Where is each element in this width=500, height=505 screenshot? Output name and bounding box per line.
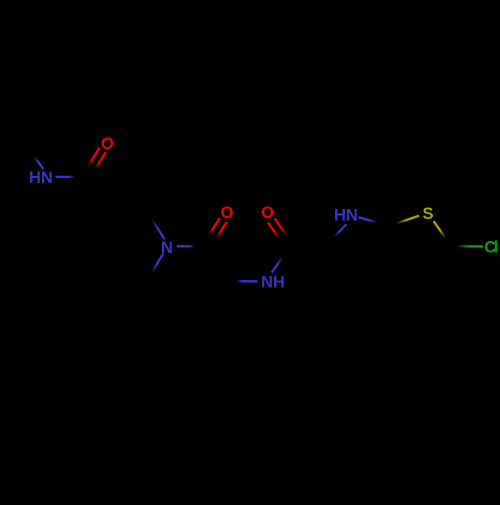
bond N1-C(=O) amide (blue half) — [56, 176, 76, 178]
bond N2-CH2 ring down-left (blue half) — [152, 254, 164, 274]
double bond C=O2 line a (red half) — [209, 218, 220, 235]
double bond C=O3 line a (red half) — [275, 218, 287, 235]
bond S-C6a thiophene (yellow half) — [397, 216, 420, 224]
bond N2-C(=O) acyl (blue half) — [177, 245, 195, 248]
bond S-C2 thiophene (yellow half) — [434, 221, 446, 238]
svg-text:S: S — [422, 205, 433, 223]
svg-text:O: O — [221, 204, 234, 222]
svg-text:N: N — [161, 239, 173, 257]
double bond C=O2 line b (red half) — [217, 222, 227, 239]
double bond C=O1 line a (red half) — [88, 148, 100, 167]
svg-text:NH: NH — [261, 274, 285, 292]
bond N2-CH2 ring up-left (blue half) — [152, 220, 165, 240]
svg-text:O: O — [261, 204, 274, 222]
double bond C=O1 line b (red half) — [95, 152, 106, 169]
svg-text:HN: HN — [29, 169, 53, 187]
double bond C=O3 line b (red half) — [268, 223, 279, 239]
svg-text:O: O — [101, 135, 114, 153]
svg-text:HN: HN — [334, 207, 358, 225]
bond N4-C5 pyrrole (blue half) — [334, 224, 347, 237]
bond N1-CH3 (methylamine methyl, blue half) — [34, 157, 44, 170]
bond N3-C(=O) (blue half) — [272, 257, 283, 273]
bond N3-CH alpha (blue half) — [237, 280, 258, 282]
bond C2-Cl (green half) — [457, 245, 484, 248]
bond N4-C6a pyrrole (blue half) — [359, 217, 378, 223]
svg-text:l: l — [494, 239, 499, 257]
